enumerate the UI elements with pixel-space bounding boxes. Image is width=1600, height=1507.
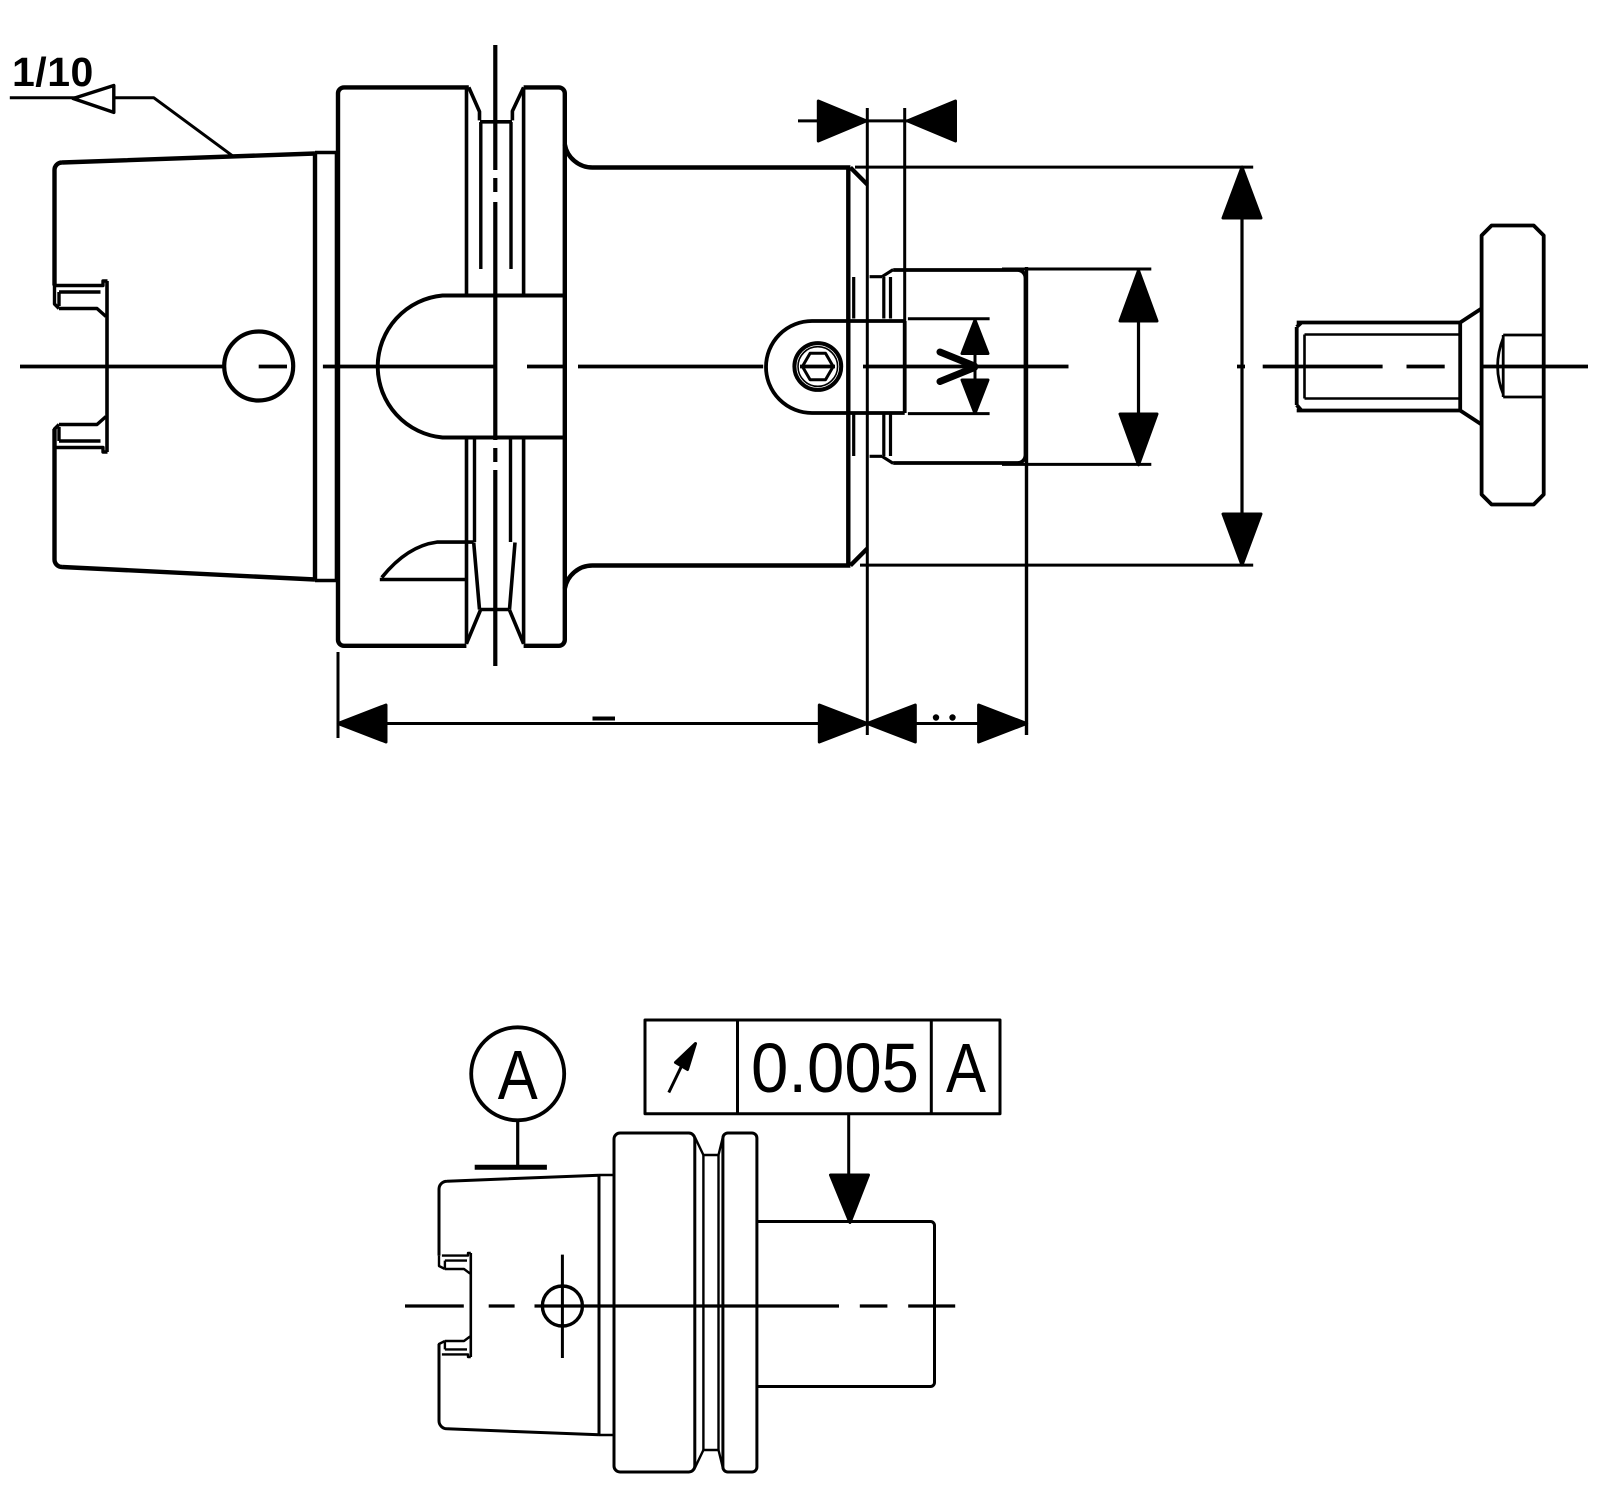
bottom dim2 left arrow bbox=[867, 705, 915, 742]
small shank outline bbox=[439, 1175, 599, 1435]
screw neck bbox=[1460, 309, 1481, 425]
gauge plane dash-dot line bbox=[493, 45, 497, 666]
taper open arrowhead bbox=[73, 86, 114, 113]
groove floor bbox=[703, 1155, 718, 1450]
frame divider 2 bbox=[930, 1020, 933, 1114]
frame divider 1 bbox=[736, 1020, 739, 1114]
flange V-groove bottom walls bbox=[466, 543, 523, 644]
body outline bbox=[565, 144, 868, 589]
flange outline bbox=[338, 87, 565, 645]
flange inner section edges bbox=[467, 87, 524, 643]
svg-text:0.005: 0.005 bbox=[751, 1029, 919, 1107]
small shank bore line bbox=[469, 1253, 472, 1357]
body dia top arrow bbox=[1223, 167, 1261, 218]
bottom dim left arrow bbox=[338, 705, 386, 742]
bottom dim1 right arrow bbox=[819, 705, 867, 742]
disc1 groove chamfer bbox=[695, 1137, 704, 1468]
dim text dash remnant bbox=[593, 717, 616, 721]
slot dim top arrow bbox=[962, 320, 988, 354]
bottom dim2 right arrow bbox=[979, 705, 1027, 742]
bottom length dim line 2 bbox=[867, 722, 1026, 725]
body dia bottom arrow bbox=[1223, 514, 1261, 565]
FCF leader arrow bbox=[831, 1175, 869, 1223]
small cross hole bbox=[542, 1286, 582, 1326]
taper leader line bbox=[10, 98, 233, 156]
datum leader bbox=[516, 1120, 519, 1167]
svg-text:A: A bbox=[498, 1036, 538, 1114]
datum bar bbox=[475, 1165, 547, 1170]
runout symbol arrowhead bbox=[676, 1044, 696, 1070]
flange disc 2 bbox=[723, 1133, 757, 1472]
top dim left arrow bbox=[818, 101, 866, 141]
screw socket bbox=[1498, 335, 1544, 397]
lower key fin bbox=[380, 542, 474, 579]
main centerline bbox=[20, 365, 1588, 369]
chevron marks bbox=[940, 352, 975, 382]
screw shank bbox=[1297, 323, 1461, 411]
ext line body face bbox=[866, 108, 869, 735]
shank lower drive slot bbox=[55, 417, 108, 453]
small gauge line bbox=[598, 1175, 601, 1435]
slot width ext lines bbox=[908, 319, 990, 414]
drive slot (stadium) bbox=[766, 321, 905, 413]
gauge collar bbox=[315, 152, 338, 581]
FCF leader line bbox=[847, 1114, 850, 1180]
hex socket hexagon bbox=[802, 353, 833, 380]
spigot diameter dim line bbox=[1137, 269, 1140, 465]
shank cross hole bbox=[224, 332, 293, 401]
screw hex socket inner circle bbox=[798, 347, 838, 387]
taper shank outline bbox=[55, 154, 316, 580]
screw thread minor lines bbox=[1305, 335, 1461, 399]
spigot diameter ext lines bbox=[1002, 269, 1151, 464]
spigot ext line vertical bbox=[1025, 267, 1028, 735]
flange groove cylinder lines top bbox=[481, 122, 511, 269]
datum circle A bbox=[471, 1027, 564, 1120]
runout symbol shaft bbox=[669, 1061, 684, 1093]
svg-text:A: A bbox=[946, 1029, 986, 1107]
flange ext line bbox=[337, 652, 340, 738]
body diameter ext lines bbox=[855, 167, 1253, 565]
top small dimension line bbox=[798, 119, 956, 122]
small shank upper slot bbox=[439, 1253, 471, 1274]
slot dim bottom arrow bbox=[962, 380, 988, 414]
ext line slot end bbox=[903, 108, 906, 321]
taper gauge line bbox=[313, 154, 317, 580]
spigot dia bottom arrow bbox=[1120, 414, 1157, 465]
flange disc 1 bbox=[614, 1133, 695, 1472]
drive key (D-shape) bbox=[378, 296, 565, 438]
spigot dia top arrow bbox=[1120, 271, 1157, 322]
small collar bbox=[599, 1175, 614, 1435]
svg-text:1/10: 1/10 bbox=[12, 49, 94, 95]
spigot outline bbox=[893, 270, 1025, 463]
small spigot bbox=[757, 1222, 935, 1387]
bottom length dim line 1 bbox=[338, 722, 867, 725]
slot width dim line bbox=[974, 320, 977, 414]
bottom view centerline bbox=[405, 1304, 955, 1307]
spigot base rings bbox=[854, 270, 894, 464]
small hole vertical centerline bbox=[561, 1255, 564, 1358]
small shank lower slot bbox=[439, 1337, 471, 1358]
flange groove cylinder lines bottom bbox=[475, 439, 511, 542]
screw head bbox=[1482, 226, 1544, 505]
dim text dots remnant bbox=[933, 714, 939, 720]
disc2 groove chamfer bbox=[719, 1137, 723, 1468]
top dim right arrow bbox=[908, 101, 956, 141]
tolerance frame box bbox=[645, 1020, 1000, 1114]
screw hex socket outer circle bbox=[794, 343, 841, 390]
flange V-groove top bbox=[469, 87, 524, 121]
body diameter dim line bbox=[1240, 167, 1243, 565]
shank face bore line bbox=[105, 281, 109, 452]
shank upper drive slot bbox=[55, 281, 108, 317]
